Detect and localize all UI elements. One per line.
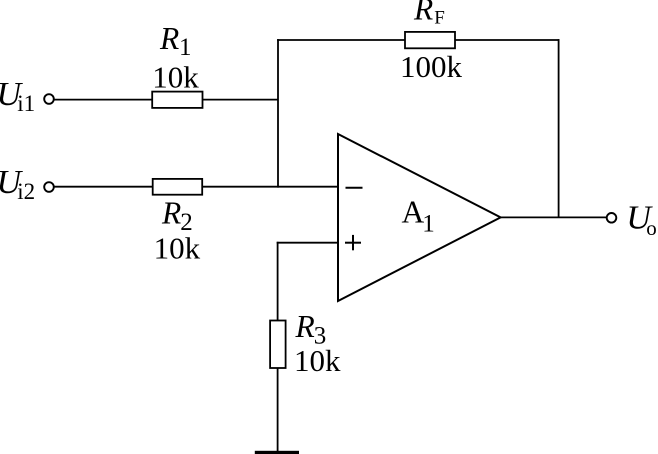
wire bbox=[277, 368, 279, 451]
resistor R2 bbox=[153, 179, 203, 195]
label Uo bbox=[626, 199, 656, 240]
label A1 bbox=[402, 195, 435, 238]
wire bbox=[277, 39, 405, 41]
value 10k bbox=[152, 60, 199, 95]
svg-text:R: R bbox=[159, 21, 179, 56]
svg-text:i1: i1 bbox=[17, 91, 35, 116]
wire bbox=[203, 99, 279, 101]
non-inverting input plus sign bbox=[345, 235, 361, 250]
wire bbox=[55, 186, 153, 188]
terminal Ui2 bbox=[44, 182, 54, 192]
resistor RF bbox=[405, 32, 455, 48]
resistor R3 bbox=[270, 321, 286, 369]
svg-text:R: R bbox=[295, 309, 315, 344]
svg-text:1: 1 bbox=[422, 210, 435, 237]
svg-text:i2: i2 bbox=[17, 179, 35, 204]
svg-text:F: F bbox=[434, 7, 445, 28]
svg-text:10k: 10k bbox=[152, 60, 199, 95]
wire bbox=[277, 242, 339, 244]
wire bbox=[455, 39, 560, 41]
svg-text:A: A bbox=[402, 195, 425, 230]
value 100k bbox=[400, 49, 463, 84]
label R2 bbox=[161, 196, 193, 236]
label Ui2 bbox=[0, 164, 35, 204]
svg-text:10k: 10k bbox=[154, 230, 201, 265]
svg-text:10k: 10k bbox=[294, 343, 341, 378]
inverting input minus sign bbox=[346, 187, 363, 189]
svg-text:R: R bbox=[161, 196, 181, 231]
value 10k bbox=[154, 230, 201, 265]
wire bbox=[277, 242, 279, 321]
value 10k bbox=[294, 343, 341, 378]
svg-text:R: R bbox=[413, 0, 433, 27]
wire bbox=[55, 99, 153, 101]
svg-text:100k: 100k bbox=[400, 49, 463, 84]
wire bbox=[500, 216, 607, 218]
label R1 bbox=[159, 21, 192, 61]
label Ui1 bbox=[0, 76, 35, 116]
op-amp A1 bbox=[338, 134, 501, 301]
svg-text:o: o bbox=[646, 216, 657, 240]
ground bbox=[255, 451, 299, 454]
wire bbox=[558, 39, 560, 217]
resistor R1 bbox=[152, 92, 202, 108]
label R3 bbox=[295, 309, 327, 349]
label RF bbox=[413, 0, 445, 28]
wire bbox=[202, 186, 339, 188]
wire bbox=[277, 39, 279, 188]
terminal Ui1 bbox=[44, 94, 54, 104]
terminal Uo bbox=[607, 213, 617, 223]
svg-text:1: 1 bbox=[179, 34, 192, 61]
